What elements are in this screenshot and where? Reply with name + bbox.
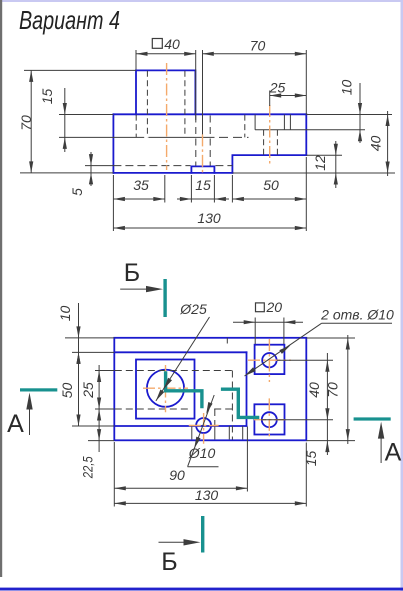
plan view: centerlines bottom hole xyxy=(268,398,270,438)
front view: centerline main boss xyxy=(166,63,168,170)
plan dim 90: dim line xyxy=(114,487,247,489)
dim sq40: ext lines xyxy=(135,50,137,70)
dim 50: dim line xyxy=(232,198,306,200)
svg-text:70: 70 xyxy=(250,38,266,54)
svg-text:35: 35 xyxy=(133,177,149,193)
plan dim 22.5: arrows xyxy=(97,409,101,421)
svg-text:Ø25: Ø25 xyxy=(179,301,207,317)
dim 70 top: ext line right xyxy=(305,50,307,114)
svg-text:10: 10 xyxy=(339,80,355,96)
plan view: circle d25 xyxy=(147,370,184,407)
plan view: divider line xyxy=(246,352,248,426)
front view: left edge xyxy=(112,114,114,173)
plan dim 50/25/22.5: ext lines xyxy=(95,370,114,372)
front view: hidden tab hole wall left xyxy=(195,116,197,166)
dim sq40: label xyxy=(152,39,162,49)
page bottom border xyxy=(0,588,403,591)
svg-text:Ø10: Ø10 xyxy=(188,445,216,461)
dim 15 bottom: dim line with outside arrows xyxy=(177,198,229,200)
front view: hidden bottom ledge line xyxy=(113,165,190,167)
svg-text:90: 90 xyxy=(169,467,185,483)
plan view: centerlines top hole xyxy=(268,339,270,382)
front view: hidden pocket wall xyxy=(135,115,137,138)
plan view: outer rectangle xyxy=(114,338,306,441)
plan dim 70 right: dim line xyxy=(347,335,349,444)
front view: bottom edge xyxy=(113,172,232,174)
front view: hidden small holes wall right xyxy=(276,130,278,155)
svg-text:15: 15 xyxy=(39,89,55,105)
front view: hidden small holes wall left xyxy=(263,130,265,155)
section mark B bottom: teal tick xyxy=(201,516,204,553)
section mark B top: arrow xyxy=(120,288,150,290)
plan dim 50: dim line xyxy=(78,352,80,426)
plan dim 90/130: ext lines xyxy=(113,442,115,507)
front view: boss outline xyxy=(136,70,195,114)
plan view: bottom square 20 xyxy=(254,404,284,434)
plan view: hidden line middle (D2) right part xyxy=(214,408,232,410)
svg-text:20: 20 xyxy=(266,299,283,315)
section path A-A left part (teal) xyxy=(166,371,202,408)
plan view: interior top line xyxy=(114,351,246,353)
plan view: top strip short edge line xyxy=(226,338,228,344)
plan dim sq20: dim line xyxy=(233,321,303,323)
plan dim 40: dim line xyxy=(326,353,328,455)
svg-text:А: А xyxy=(7,410,24,438)
dim 5: dim line xyxy=(90,152,92,186)
plan dim 10: dim line xyxy=(78,303,80,365)
plan view: centerlines small circle xyxy=(189,425,219,427)
section mark A right: teal tick xyxy=(354,417,391,420)
front view: left ext line for dim 15 xyxy=(59,114,113,116)
front view: bottom tab xyxy=(191,166,214,173)
svg-text:130: 130 xyxy=(197,210,221,226)
plan view: interior bottom line xyxy=(114,425,246,427)
dim 35/15/50 row: ext lines xyxy=(112,175,114,231)
plan view: small circle d10 xyxy=(196,418,211,433)
dim 35: dim line xyxy=(113,198,164,200)
front view: centerline right holes xyxy=(269,105,271,164)
dim 10 right: ext top xyxy=(306,114,392,116)
plan dim sq20: ext lines xyxy=(254,318,256,345)
plan view: top square 20 xyxy=(255,345,285,374)
svg-text:22,5: 22,5 xyxy=(80,456,96,479)
front view: centerline tab hole xyxy=(202,134,204,175)
plan view: boss square 40 xyxy=(136,360,195,419)
dim 12: ext top xyxy=(306,154,342,156)
plan view: centerlines circle d25 xyxy=(143,387,188,389)
dim 70 top: ext line left xyxy=(202,50,204,134)
section mark A right: arrow xyxy=(380,437,382,463)
front view: top edge xyxy=(113,113,306,115)
page top border xyxy=(0,0,403,2)
svg-text:Вариант 4: Вариант 4 xyxy=(19,5,120,35)
svg-text:130: 130 xyxy=(195,487,219,503)
dim 70 left: dim line xyxy=(30,70,32,172)
front view: hidden tab hole wall right xyxy=(209,116,211,166)
dim 12: ext bottom shared xyxy=(232,172,395,174)
front view: counterbore bottom line right xyxy=(148,136,214,138)
svg-text:25: 25 xyxy=(269,80,286,96)
front view: square hole 20 right wall xyxy=(283,115,285,130)
plan view: top hole d10 xyxy=(262,353,276,367)
front view: square hole bottom + ext right xyxy=(255,129,365,131)
svg-text:40: 40 xyxy=(306,382,322,398)
section path A-A right part (teal) xyxy=(221,389,259,417)
page left border xyxy=(0,0,2,577)
dim 25: dim line xyxy=(270,95,307,97)
dim sq40: dim line xyxy=(136,53,196,55)
front view: counterbore bottom dashed continuation xyxy=(219,136,249,138)
dim 15 left: dim line xyxy=(64,88,66,152)
plan view: hidden line vertical (D4) xyxy=(214,409,216,426)
plan view: bottom strip edge lines xyxy=(191,426,193,439)
section mark A left: teal tick xyxy=(20,388,57,391)
svg-text:5: 5 xyxy=(69,188,85,196)
section mark B top: teal tick xyxy=(163,279,166,317)
dim 10 right: dim line xyxy=(359,83,361,143)
svg-text:Б: Б xyxy=(161,548,177,576)
svg-text:50: 50 xyxy=(263,177,279,193)
svg-text:10: 10 xyxy=(57,306,73,322)
dim 130 front: dim line xyxy=(113,227,306,229)
plan view: hidden line vertical (D3) xyxy=(231,371,233,440)
plan view: hidden line top (D1) xyxy=(115,370,233,372)
dim 70 top: dim line xyxy=(202,53,306,55)
front view: square hole 20 left wall xyxy=(254,115,256,130)
svg-text:70: 70 xyxy=(18,115,34,131)
svg-text:2 отв. Ø10: 2 отв. Ø10 xyxy=(320,307,394,323)
svg-text:40: 40 xyxy=(368,136,384,152)
svg-text:Б: Б xyxy=(124,259,140,287)
svg-text:40: 40 xyxy=(164,36,180,52)
front view: hidden edge x245 xyxy=(244,115,246,138)
front view: right edge xyxy=(305,114,307,155)
front view: extra right wall line xyxy=(289,115,291,130)
section mark B bottom: arrow xyxy=(159,541,188,543)
plan view: bottom hole d10 xyxy=(262,412,277,427)
svg-text:12: 12 xyxy=(312,155,328,171)
plan dim 15 right: arrow xyxy=(325,441,329,453)
svg-text:50: 50 xyxy=(59,383,75,399)
front view: counterbore bottom line left xyxy=(59,136,144,138)
front view: hidden hole wall right (d25) xyxy=(184,71,186,138)
dim 40 right: dim line xyxy=(387,111,389,176)
svg-text:25: 25 xyxy=(80,382,96,399)
plan dim 25: dim line xyxy=(98,365,100,452)
plan dim 40/70/15 right: ext lines xyxy=(306,337,355,339)
plan dim sq20: label xyxy=(256,303,265,312)
svg-text:15: 15 xyxy=(303,451,319,467)
section mark A left: arrow xyxy=(29,408,31,435)
dim 25: ext line xyxy=(269,91,271,107)
svg-text:15: 15 xyxy=(195,177,211,193)
svg-text:А: А xyxy=(385,439,402,467)
dim 12: dim line xyxy=(335,141,337,188)
dim 70 left: ext bottom xyxy=(20,172,113,174)
plan dim 130: dim line xyxy=(114,502,306,504)
front view: hidden hole wall left (d25) xyxy=(146,71,148,138)
dim 5: ext line xyxy=(85,165,113,167)
front view: right step xyxy=(232,155,306,173)
svg-text:70: 70 xyxy=(325,382,341,398)
label d10 with leader xyxy=(188,395,215,467)
dim 70 left: ext top xyxy=(24,69,136,71)
plan dim 10: ext lines xyxy=(65,337,114,339)
plan view: hidden line middle (D2) left part xyxy=(115,408,192,410)
page right border xyxy=(401,0,403,591)
